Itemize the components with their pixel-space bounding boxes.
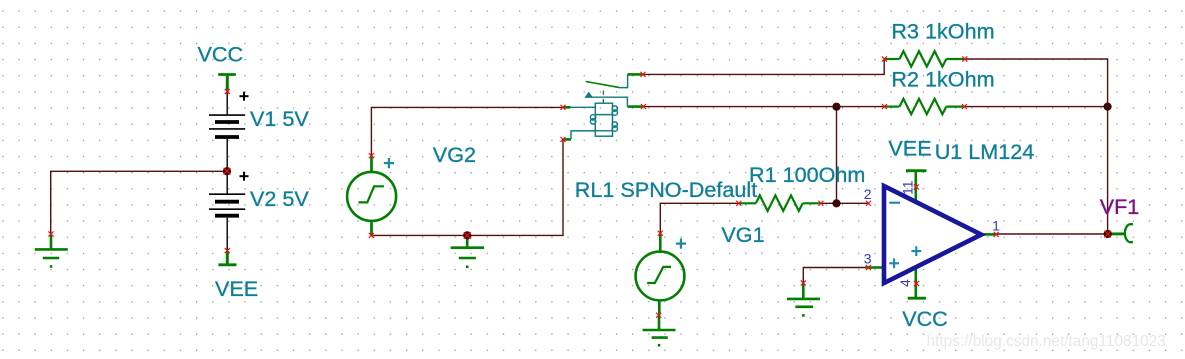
svg-text:R2 1kOhm: R2 1kOhm <box>891 67 994 92</box>
svg-text:4: 4 <box>897 279 913 287</box>
svg-text:VG2: VG2 <box>433 142 476 167</box>
svg-text:3: 3 <box>864 251 872 267</box>
svg-text:VG1: VG1 <box>721 222 764 247</box>
svg-text:VF1: VF1 <box>1100 194 1140 219</box>
svg-text:VCC: VCC <box>902 306 948 331</box>
svg-text:VEE: VEE <box>215 276 258 301</box>
svg-text:2: 2 <box>864 186 872 202</box>
svg-text:R3 1kOhm: R3 1kOhm <box>891 18 994 43</box>
svg-text:V2 5V: V2 5V <box>250 186 309 211</box>
svg-text:V1 5V: V1 5V <box>250 106 309 131</box>
svg-text:VCC: VCC <box>198 42 244 67</box>
svg-text:VEE: VEE <box>888 136 931 161</box>
svg-text:1: 1 <box>992 218 1000 234</box>
svg-text:U1 LM124: U1 LM124 <box>935 139 1035 164</box>
svg-text:11: 11 <box>900 180 916 195</box>
svg-text:https://blog.csdn.net/tang1108: https://blog.csdn.net/tang11081023 <box>927 333 1166 350</box>
svg-text:RL1 SPNO-Default: RL1 SPNO-Default <box>575 177 757 202</box>
svg-text:R1 100Ohm: R1 100Ohm <box>749 162 865 187</box>
